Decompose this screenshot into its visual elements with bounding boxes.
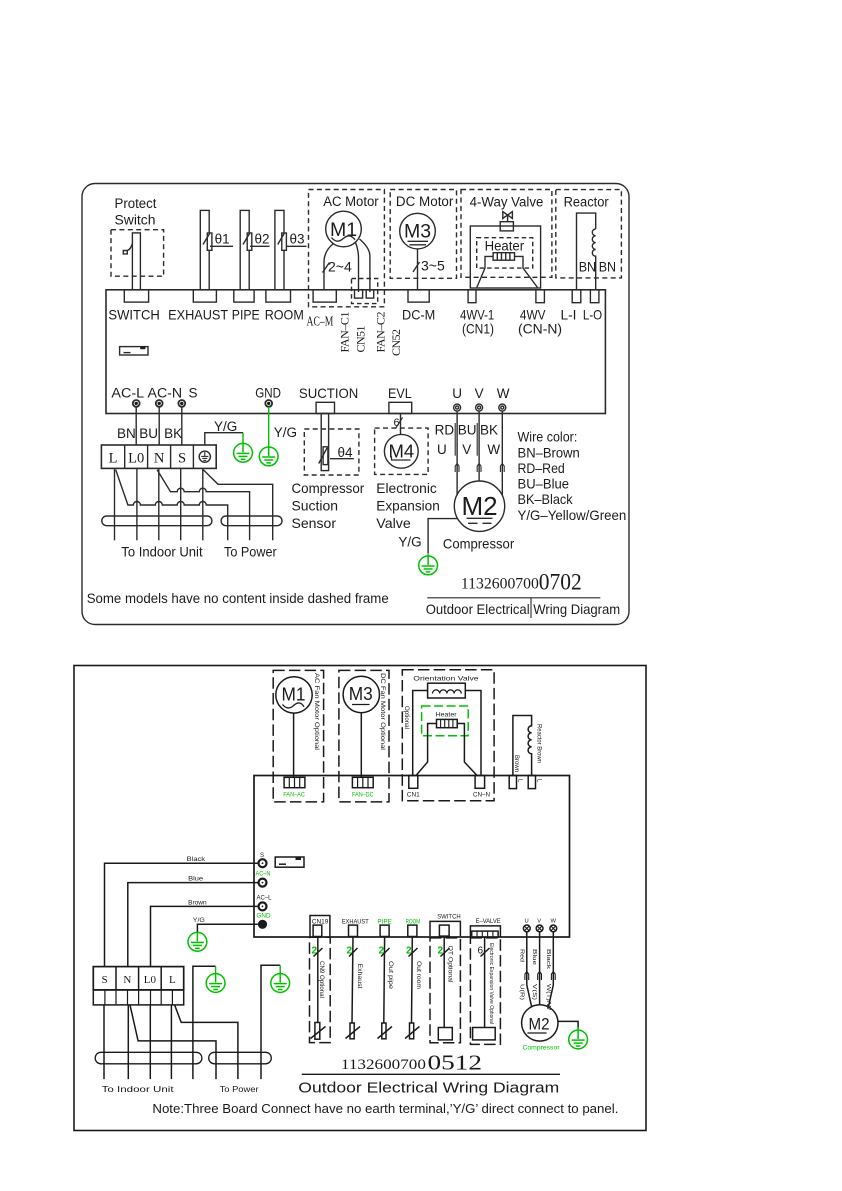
earth ground M2 [419,553,438,575]
valve bowtie symbol [503,212,513,219]
svg-text:To Power: To Power [224,544,277,560]
valve M4 circle [384,434,418,468]
tab EXHAUST d2 [349,925,358,936]
wire M2 to earth [428,519,458,553]
label To Power [224,544,277,560]
terminal GND d2 [258,920,267,929]
svg-text:BK: BK [480,423,498,438]
bottom terminal labels [111,385,509,400]
heater element d2 [437,719,458,727]
Reactor dashed box [556,190,622,278]
jumper component d2 [275,857,304,867]
svg-text:SUCTION: SUCTION [299,386,358,401]
svg-text:Black: Black [545,949,551,969]
svg-text:W: W [497,386,510,401]
rotated label Reactor Brown [536,724,542,763]
tab SWITCH d2 [439,925,449,936]
sensor element room [410,1023,414,1039]
wire M3 lead [417,249,419,290]
rotated label Optional valve [403,706,409,729]
svg-text:M4: M4 [388,441,414,462]
svg-text:GND: GND [257,914,272,920]
thermistor bar th3 [275,210,284,289]
svg-text:Outdoor Electrical Wring Diagr: Outdoor Electrical Wring Diagram [298,1080,559,1097]
svg-text:Y/G: Y/G [398,535,421,550]
wire M2 to earth d2 [558,1021,578,1029]
terminal U d2 [523,925,530,932]
wire N down d2 [127,1005,129,1079]
svg-text:Outdoor Electrical Wring Diagr: Outdoor Electrical Wring Diagram [426,602,621,617]
wire hop row 2 [157,470,250,541]
svg-text:PIPE: PIPE [232,307,260,322]
label Protect Switch [115,196,157,228]
svg-text:Black: Black [187,856,206,863]
wire M1 d2 [293,713,295,777]
svg-text:Expansion: Expansion [376,498,440,514]
plug on V wire [477,464,481,473]
terminal block X2 lower row [93,990,183,1005]
wire N down [158,468,160,540]
label Compressor [443,536,515,552]
svg-text:Protect: Protect [115,196,157,211]
wire color legend [518,429,627,523]
svg-text:(CN1): (CN1) [462,321,494,336]
svg-text:V(S): V(S) [531,984,537,1000]
wire U to M2 [456,411,458,495]
label Y/G M2 [398,535,421,550]
terminal W [499,404,506,411]
tab PIPE [234,290,254,302]
svg-text:L-I: L-I [561,307,577,322]
earth symbol in block cell [199,451,210,462]
wire pipe sensor [383,937,386,1024]
label 3~5 [421,258,445,274]
rotated label Out room [415,961,421,989]
svg-text:L: L [517,779,523,783]
wire earth down [202,468,204,540]
compressor M2 circle [454,481,504,531]
reactor coil d2 [513,716,532,776]
svg-text:CN–N: CN–N [473,791,490,798]
wire M3 d2 [360,713,362,778]
sensor element pipe [382,1023,386,1039]
wire room sensor [411,937,414,1024]
svg-text:To Indoor Unit: To Indoor Unit [121,544,202,560]
label Y/G left [214,419,237,434]
svg-text:BK: BK [164,426,182,441]
svg-text:OT Optional: OT Optional [447,946,453,983]
wire M1 right leads [356,243,359,293]
svg-text:Brown: Brown [188,899,207,906]
part number 2 [341,1051,482,1075]
title block line [427,597,600,599]
earth ground M2 d2 [569,1027,588,1049]
DC fan motor dashed box [339,670,389,802]
tab PIPE d2 [380,925,389,936]
rotated label Electronic Expansion Valve Optional [488,943,494,1024]
wire S down d2 [103,1005,105,1079]
svg-text:θ2: θ2 [255,232,270,247]
rotated label OT Optional [447,946,453,983]
earth ground d2 left [188,932,207,951]
svg-text:Some models have no content in: Some models have no content inside dashe… [87,591,389,606]
svg-text:Switch: Switch [115,213,156,228]
label Electronic Expansion Valve [376,480,440,531]
wire M1 left lead [324,244,334,291]
terminal block X2 [93,967,183,990]
svg-text:V: V [475,386,484,401]
terminal block X1 [101,445,216,468]
connector FAN-AC comb [284,777,305,787]
wire L jog to power [175,1005,238,1079]
svg-text:L: L [169,974,176,986]
tab L right [528,776,535,789]
earth ground Y/G 2 (GND) [259,407,278,466]
terminal S [178,400,185,407]
svg-text:4-Way Valve: 4-Way Valve [470,195,544,210]
svg-text:SWITCH: SWITCH [437,913,461,920]
wire L0 down d2 [149,1005,151,1079]
board top labels [108,307,602,356]
svg-text:RD–Red: RD–Red [518,460,565,476]
wire V to M2 [478,411,480,481]
svg-text:FAN–AC: FAN–AC [283,791,305,798]
E-VALVE bracket [470,926,500,937]
svg-text:M1: M1 [282,685,306,705]
svg-text:BU: BU [139,426,158,441]
tab SUCTION [316,402,334,413]
svg-text:Optional: Optional [403,706,409,729]
label ROOM d2 [406,919,421,926]
pin FAN-C2 [366,290,374,298]
label To Indoor Unit d2 [102,1084,175,1094]
terminal AC-L [133,400,140,407]
thermistor bar th2 [240,210,249,289]
terminal AC-N d2 [259,879,267,887]
wire W to M2 [501,411,503,495]
svg-text:L: L [536,779,542,783]
sensor element exhaust [350,1023,354,1039]
svg-text:Y/G: Y/G [214,419,237,434]
rotated label Out pipe [387,961,393,990]
svg-text:M3: M3 [404,221,431,243]
protect switch dashed box [111,230,164,277]
wire AC-N down [158,407,160,445]
svg-text:Out room: Out room [415,961,421,989]
terminal V d2 [536,925,543,932]
svg-text:W: W [551,919,557,925]
wire L0 down [136,468,138,540]
svg-text:M2: M2 [461,491,497,521]
svg-text:Y/G–Yellow/Green: Y/G–Yellow/Green [518,507,627,523]
svg-text:S: S [102,974,108,986]
svg-text:N: N [123,974,131,986]
wire N jog to power [130,1005,216,1079]
svg-text:DC Motor: DC Motor [396,194,454,209]
switch end box [438,1028,452,1040]
wire count mark 6 on EVL wire [394,417,400,429]
svg-text:4WV-1: 4WV-1 [460,307,494,322]
wire U to M2 d2 [527,932,532,1008]
orientation valve dashed box [402,670,494,801]
rotated label Exhaust [356,964,362,989]
svg-text:Wire color:: Wire color: [518,429,578,445]
rotated wire labels Red Blue Black [518,949,551,1011]
svg-text:Compressor: Compressor [523,1044,561,1051]
wire V to M2 d2 [539,932,541,1005]
jumper component on board [120,347,148,355]
svg-text:BN: BN [117,426,136,441]
svg-text:AC–L: AC–L [257,896,273,902]
svg-text:Suction: Suction [292,498,339,514]
svg-text:Heater: Heater [436,712,458,719]
4-Way Valve dashed box [461,190,552,278]
frame diagram 2 [74,666,646,1131]
svg-text:GND: GND [255,385,281,400]
svg-text:To Indoor Unit: To Indoor Unit [102,1084,175,1094]
valve left wire [413,691,428,776]
connector CN19 bracket [310,916,330,937]
svg-text:CN9 Optional: CN9 Optional [318,961,324,998]
valve outer rectangle [470,226,540,288]
svg-text:Compressor: Compressor [443,536,515,552]
terminal AC-L d2 [259,902,267,910]
motor M1 circle d2 [276,677,312,713]
svg-text:Reactor: Reactor [564,195,610,210]
svg-text:L0: L0 [144,974,157,986]
rotated label DC Fan Motor Optional [379,673,386,750]
wire AC-L down [135,407,137,445]
svg-text:FAN–C2: FAN–C2 [373,312,387,353]
heater leads [477,256,493,287]
svg-text:Orientation Valve: Orientation Valve [413,676,479,683]
thermistor element th1 [207,233,212,250]
heater leads d2 [416,724,437,776]
tab 4WV [536,290,545,303]
svg-text:BN: BN [579,260,596,275]
svg-text:CN52: CN52 [389,329,403,356]
svg-text:θ3: θ3 [290,232,305,247]
tab AC-M [313,290,336,302]
svg-text:S: S [189,385,198,400]
wire Brown [151,906,259,966]
note some models [87,591,389,606]
earth ground Y/G 1 [234,433,253,462]
svg-text:W: W [487,442,500,457]
svg-text:Exhaust: Exhaust [356,964,362,989]
wire exhaust sensor [352,937,353,1024]
main board PCB2 [254,776,570,938]
svg-text:Blue: Blue [531,949,537,965]
svg-text:DC Fan Motor Optional: DC Fan Motor Optional [379,673,386,750]
svg-text:CN1: CN1 [407,791,420,798]
wire hop row 1 [116,470,228,541]
main board PCB1 [106,290,605,414]
earth bracket 1 [193,966,216,1079]
svg-text:BU–Blue: BU–Blue [518,476,570,492]
svg-text:3~5: 3~5 [421,258,445,274]
tab CN-N [475,776,485,789]
wire earth cell to Y/G earth [205,433,243,445]
suction sensor bar [321,414,328,471]
label FAN-AC [283,791,305,798]
svg-text:CN51: CN51 [354,326,368,353]
title rule d2 [302,1073,560,1075]
svg-text:2~4: 2~4 [328,259,352,275]
svg-text:M3: M3 [349,684,373,704]
label BN BN [579,260,616,275]
separator lines [454,423,456,456]
svg-text:EXHAUST: EXHAUST [168,307,229,322]
label FAN-DC [352,791,374,798]
AC fan motor dashed box [273,670,323,802]
svg-text:Y/G: Y/G [193,917,205,924]
svg-text:U: U [437,442,447,457]
tab ROOM [266,290,291,302]
wire Y/G d2 [197,924,258,932]
frame diagram 1 [82,184,629,625]
svg-text:L: L [109,450,118,466]
tab CN19 [313,925,322,936]
tab 4WV-1 [468,290,476,303]
cable clamp oval To Power [221,516,282,526]
E-VALVE dashed box [470,938,500,1045]
svg-text:Out pipe: Out pipe [387,961,393,990]
tab L-O [590,290,599,303]
svg-text:(CN-N): (CN-N) [518,321,562,336]
label RD BU BK row [435,423,498,438]
cable oval To Indoor d2 [95,1052,202,1064]
wire EVL down [400,414,402,435]
connector FAN-DC comb [352,777,373,787]
cable clamp oval To Indoor [102,516,212,526]
SWITCH bracket [430,921,460,936]
label SWITCH d2 [437,913,461,920]
svg-text:Electronic: Electronic [376,480,437,496]
rotated label Brown [513,755,519,772]
rotated label CN9 Optional [318,961,324,998]
label To Indoor Unit [121,544,202,560]
svg-text:θ1: θ1 [215,232,230,247]
svg-text:0512: 0512 [428,1051,483,1075]
wire S down [180,468,182,540]
terminal S d2 [259,859,267,867]
label 2~4 [328,259,352,275]
svg-text:Brown: Brown [513,755,519,772]
label Compressor green [523,1044,561,1051]
rotated label AC Fan Motor Optional [313,673,320,750]
svg-text:Electronic Expansion Valve Opt: Electronic Expansion Valve Optional [488,943,494,1024]
tab EVL [389,402,412,413]
protect switch S1 bar [132,233,140,290]
label E-VALVE [476,918,501,925]
compressor suction sensor dashed box [304,429,359,475]
Heater dashed box [477,238,533,268]
svg-text:AC–M: AC–M [307,315,334,330]
svg-text:FAN–C1: FAN–C1 [338,312,352,353]
svg-text:Sensor: Sensor [292,515,337,531]
svg-text:Compressor: Compressor [292,480,365,496]
motor M3 circle d2 [343,676,379,712]
plug on U wire [455,464,459,473]
label BN BU BK [117,426,182,441]
heater dashed box green [422,706,469,736]
terminal GND [265,400,272,407]
cable oval To Power d2 [209,1052,272,1064]
electronic expansion valve dashed box [375,428,429,474]
reactor L1 coil [577,213,596,289]
svg-text:RD: RD [435,423,455,438]
svg-text:AC-L: AC-L [111,385,144,400]
svg-text:L-O: L-O [583,307,603,322]
title text 2 [298,1080,559,1097]
svg-text:Y/G: Y/G [274,425,297,440]
terminal V [476,404,483,411]
compressor M2 circle d2 [522,1005,558,1041]
svg-text:θ4: θ4 [338,445,354,460]
SWITCH dashed box [430,938,460,1043]
svg-text:V: V [537,919,541,925]
title block divider [530,598,532,618]
valve right wire [465,691,481,776]
title text 1 [426,602,621,617]
label Compressor Suction Sensor [292,480,365,531]
svg-text:Valve: Valve [376,515,411,531]
thermistor bar th1 [200,210,209,289]
thermistor element th2 [247,233,252,250]
thermistor element th3 [282,233,287,250]
sensor element CN19 [315,1023,320,1040]
svg-text:EVL: EVL [388,386,412,401]
svg-text:L0: L0 [128,450,144,466]
svg-text:Red: Red [518,949,524,962]
wire Blue [128,883,259,967]
valve coil box [428,683,466,698]
wire switch [443,936,445,1027]
terminal U [454,404,461,411]
svg-text:U: U [525,919,529,925]
tab ROOM d2 [408,925,417,936]
label Y/G right [274,425,297,440]
svg-text:BK–Black: BK–Black [518,491,574,507]
plug on W wire [500,464,504,473]
svg-text:AC Fan Motor Optional: AC Fan Motor Optional [313,673,320,750]
thermistor element th4 [323,447,328,465]
valve coil small rect [500,222,513,231]
svg-text:Heater: Heater [485,238,525,253]
E-VALVE comb connector [472,931,498,937]
svg-text:BN: BN [599,260,616,275]
tab SWITCH [124,290,148,302]
motor M3 circle [400,213,436,249]
e-valve end box [473,1028,496,1040]
label PIPE d2 [377,919,392,926]
earth bracket 2 [261,965,280,1079]
svg-text:M2: M2 [529,1015,550,1034]
svg-text:N: N [154,450,165,466]
protect switch contact [123,244,132,254]
wire L down d2 [170,1005,172,1079]
svg-text:0702: 0702 [539,570,582,595]
svg-text:BU: BU [458,423,477,438]
terminal W d2 [550,925,557,932]
tab L left [509,776,516,789]
wire L down [114,468,116,540]
svg-text:U(R): U(R) [518,984,524,1000]
svg-text:SWITCH: SWITCH [108,307,159,322]
svg-text:ROOM: ROOM [265,307,304,322]
svg-text:AC Motor: AC Motor [323,194,379,209]
